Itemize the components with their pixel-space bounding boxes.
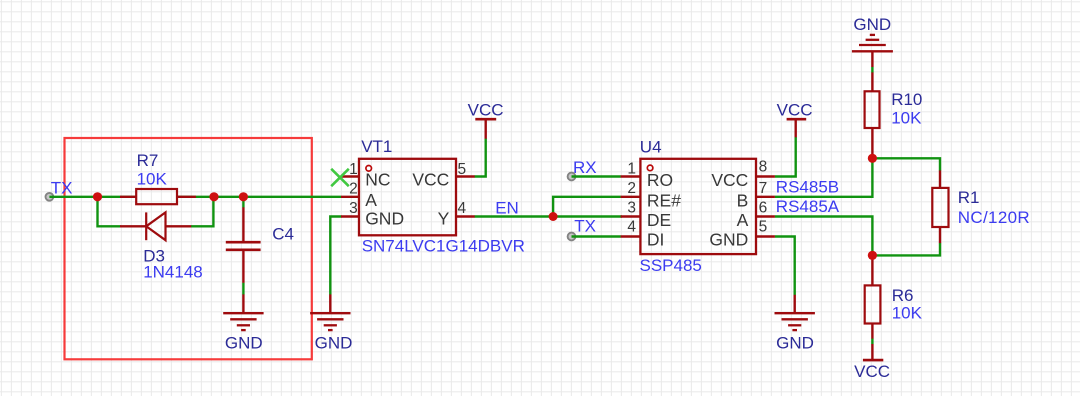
svg-text:NC: NC bbox=[365, 170, 390, 190]
svg-text:Y: Y bbox=[438, 209, 450, 229]
svg-text:RE#: RE# bbox=[647, 190, 681, 210]
svg-text:10K: 10K bbox=[892, 304, 923, 323]
svg-text:SN74LVC1G14DBVR: SN74LVC1G14DBVR bbox=[362, 237, 525, 256]
svg-text:RX: RX bbox=[573, 158, 597, 177]
svg-text:EN: EN bbox=[495, 198, 519, 217]
svg-text:10K: 10K bbox=[137, 170, 168, 189]
svg-text:VCC: VCC bbox=[412, 170, 449, 190]
svg-text:U4: U4 bbox=[640, 137, 662, 156]
svg-text:VT1: VT1 bbox=[361, 137, 392, 156]
svg-text:GND: GND bbox=[225, 333, 263, 352]
svg-text:R10: R10 bbox=[891, 90, 922, 109]
svg-text:4: 4 bbox=[627, 219, 636, 236]
svg-text:GND: GND bbox=[776, 333, 814, 352]
svg-text:3: 3 bbox=[627, 200, 636, 217]
svg-text:4: 4 bbox=[458, 200, 467, 217]
svg-text:DI: DI bbox=[647, 229, 665, 249]
svg-text:NC/120R: NC/120R bbox=[958, 208, 1030, 227]
svg-text:VCC: VCC bbox=[711, 170, 748, 190]
svg-text:8: 8 bbox=[759, 159, 768, 176]
svg-text:A: A bbox=[365, 190, 377, 210]
svg-text:GND: GND bbox=[365, 209, 404, 229]
svg-text:A: A bbox=[737, 210, 749, 230]
svg-text:B: B bbox=[737, 190, 749, 210]
svg-text:RS485B: RS485B bbox=[776, 177, 839, 196]
svg-text:GND: GND bbox=[853, 15, 891, 34]
svg-text:1: 1 bbox=[627, 160, 636, 177]
svg-text:VCC: VCC bbox=[468, 100, 504, 119]
svg-text:TX: TX bbox=[574, 216, 596, 235]
svg-text:TX: TX bbox=[51, 178, 73, 197]
svg-text:R6: R6 bbox=[892, 286, 914, 305]
svg-text:3: 3 bbox=[349, 200, 358, 217]
svg-text:2: 2 bbox=[349, 180, 358, 197]
svg-text:VCC: VCC bbox=[777, 100, 813, 119]
svg-text:5: 5 bbox=[458, 161, 467, 178]
svg-text:1N4148: 1N4148 bbox=[143, 262, 203, 281]
svg-text:DE: DE bbox=[647, 210, 671, 230]
svg-text:R7: R7 bbox=[137, 151, 159, 170]
svg-text:7: 7 bbox=[759, 180, 768, 197]
svg-text:1: 1 bbox=[349, 161, 358, 178]
svg-text:C4: C4 bbox=[272, 225, 294, 244]
svg-text:R1: R1 bbox=[958, 188, 980, 207]
svg-text:GND: GND bbox=[709, 229, 748, 249]
svg-text:SSP485: SSP485 bbox=[640, 256, 702, 275]
svg-text:RO: RO bbox=[647, 170, 673, 190]
svg-text:GND: GND bbox=[315, 333, 353, 352]
svg-text:5: 5 bbox=[759, 219, 768, 236]
svg-text:RS485A: RS485A bbox=[776, 197, 840, 216]
svg-text:VCC: VCC bbox=[854, 362, 890, 381]
svg-text:10K: 10K bbox=[891, 109, 922, 128]
svg-text:2: 2 bbox=[627, 180, 636, 197]
svg-text:6: 6 bbox=[759, 200, 768, 217]
